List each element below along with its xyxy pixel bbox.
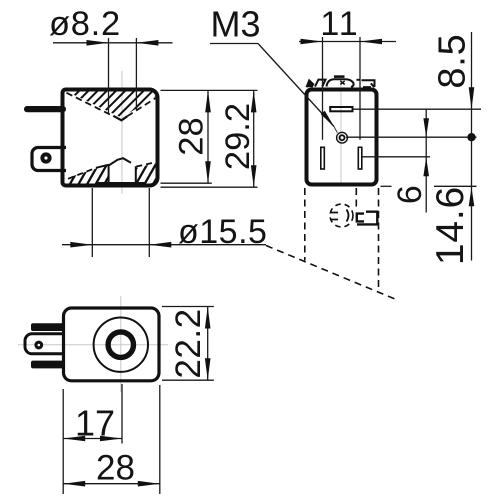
screw hole M3 outer [337, 132, 348, 143]
svg-text:28: 28 [96, 449, 135, 488]
ground tab (side) [32, 148, 66, 171]
ext line body bottom level a [381, 185, 392, 187]
arrow 17 right [100, 436, 122, 442]
ext line center level [346, 136, 477, 138]
hidden circle marks [331, 210, 349, 222]
ext line left ø15.5 [91, 188, 93, 257]
arrow 14.6 [469, 187, 475, 206]
screw hole M3 inner [340, 135, 345, 140]
ext line 17 right [121, 384, 123, 444]
ext line 11 left [322, 37, 324, 140]
ext line 22.2 bottom [162, 379, 214, 381]
ext line 28 right [159, 385, 161, 494]
dim line 11 [299, 41, 396, 43]
top cone flank dashed right [127, 97, 157, 116]
hidden line left [304, 188, 306, 261]
svg-text:ø8.2: ø8.2 [49, 5, 121, 43]
dim line 6 [425, 110, 427, 213]
M3 underline [210, 43, 258, 45]
bottom hatching left [46, 152, 140, 196]
arrow 8.5 [469, 87, 475, 109]
ext line bottom 29.2 [161, 186, 258, 188]
svg-text:17: 17 [75, 403, 115, 444]
hidden line middle [355, 188, 357, 211]
M3 leader arrowhead [321, 111, 334, 127]
arrow 28 bottom right [138, 481, 160, 487]
bottom spade tab lower [31, 361, 64, 369]
arrow 29.2 bottom [251, 165, 257, 187]
ext line lower slot level [363, 156, 431, 158]
ext line body bottom level b [434, 185, 477, 187]
ext line 17 left [62, 389, 64, 494]
ground tab rivet [40, 152, 51, 163]
arrow 28 bottom [205, 161, 211, 183]
arrow 28 bottom left [63, 481, 85, 487]
dim line 29.2 [253, 90, 255, 187]
bottom flank dashed left [68, 168, 96, 179]
arrow 11 right [360, 39, 382, 45]
dim line 17 [63, 438, 122, 440]
top cone solid chevron [113, 116, 127, 121]
arrow ø8.2 right [136, 40, 158, 46]
dim line 28 bottom [63, 483, 160, 485]
dim line 22.2 [207, 307, 209, 381]
svg-text:11: 11 [320, 5, 359, 43]
top hatching [38, 82, 208, 132]
ext line right of ø8.2 [135, 38, 137, 110]
top cone flank dashed left [67, 93, 114, 116]
ext line 11 right [359, 37, 361, 140]
arrow 22.2 top [205, 307, 211, 329]
washer bar under house [96, 182, 146, 187]
bottom ground rivet [34, 341, 43, 350]
svg-text:M3: M3 [211, 4, 261, 45]
terminal strip profile [307, 77, 375, 88]
hidden circle [330, 204, 353, 227]
svg-text:8.5: 8.5 [432, 33, 474, 88]
bottom spade tab upper [31, 323, 64, 331]
dim line 8.5/14.6 [471, 32, 473, 261]
ext line bottom 28 [161, 182, 212, 184]
svg-text:22.2: 22.2 [169, 308, 208, 378]
ext line top shared 28/29.2 [161, 89, 258, 91]
dim line 28 [207, 90, 209, 183]
top slot [330, 107, 352, 111]
svg-text:14.6: 14.6 [429, 186, 472, 265]
spade terminal tab (side) [24, 106, 66, 112]
centerline bottom view horizontal [18, 344, 168, 346]
bottom flank dashed right [136, 162, 157, 167]
bottom view outer circle [94, 318, 148, 372]
arrow ø15.5 left [70, 242, 92, 248]
terminal slot left [321, 147, 325, 169]
hidden line right [378, 188, 380, 292]
arrow 17 left [63, 436, 85, 442]
arrow 11 left [301, 39, 323, 45]
bottom view body [64, 308, 160, 381]
dim line ø15.5 [62, 244, 266, 246]
right view body [307, 90, 377, 185]
projection dashed diagonal [266, 246, 395, 300]
svg-text:ø15.5: ø15.5 [178, 213, 267, 251]
M3 leader [258, 44, 334, 127]
arrow ø15.5 right [149, 242, 171, 248]
svg-text:29.2: 29.2 [219, 103, 257, 170]
arrow ø8.2 left [87, 40, 109, 46]
ext line 22.2 top [162, 306, 214, 308]
svg-text:6: 6 [391, 185, 429, 204]
terminal slot right [358, 147, 362, 169]
bottom hatching right [112, 152, 189, 196]
arrow 29.2 top [251, 90, 257, 112]
svg-text:28: 28 [173, 117, 211, 155]
arrow 22.2 bottom [205, 358, 211, 380]
ext line right ø15.5 [148, 188, 150, 257]
reference dot [467, 133, 475, 141]
hidden clip detail [357, 212, 378, 225]
arrow 6 top [423, 118, 429, 137]
ext line top slot level [353, 108, 482, 110]
arrow 6 bottom [423, 157, 429, 176]
M3 leader tip line [334, 127, 337, 133]
left view body [63, 90, 158, 186]
centerline bottom view vertical [120, 296, 122, 392]
bottom ground tab [25, 334, 64, 354]
bottom view inner ring [108, 332, 133, 357]
ext line left of ø8.2 [108, 38, 110, 113]
bore seat house outline [109, 158, 136, 183]
centerline left view bore [121, 71, 123, 194]
dim line ø8.2 [53, 42, 173, 44]
centerline right view [340, 76, 342, 186]
arrow 28 top [205, 90, 211, 112]
bottom flank solid piece [96, 165, 109, 168]
